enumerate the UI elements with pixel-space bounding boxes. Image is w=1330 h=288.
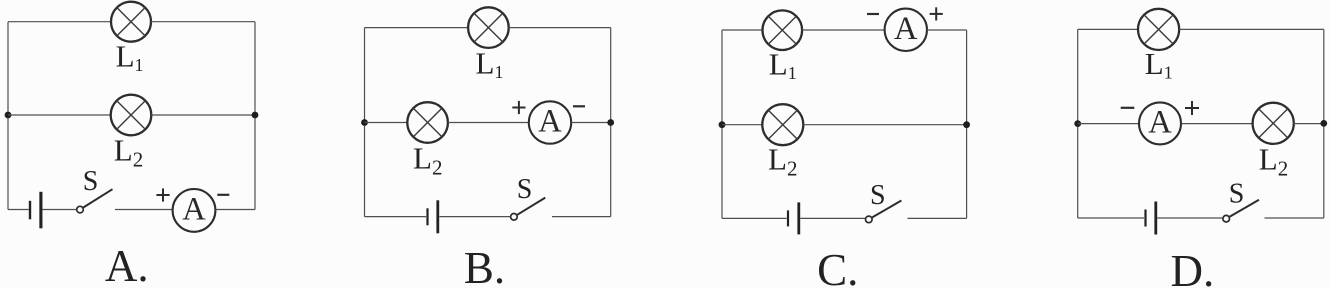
wire D top seg2 bbox=[1179, 28, 1324, 30]
wire D bottom seg1 bbox=[1078, 217, 1144, 219]
wire B bottom seg3 bbox=[552, 216, 611, 218]
switch (B) pivot bbox=[511, 214, 518, 221]
wire C bottom seg1 bbox=[722, 217, 787, 219]
svg-text:A: A bbox=[894, 11, 918, 47]
polarity - (B ammeter -) bbox=[573, 105, 585, 107]
wire B top-right segment bbox=[509, 27, 611, 29]
polarity + (C ammeter +) bbox=[930, 7, 943, 20]
wire A top-right segment bbox=[151, 21, 255, 23]
wire A bottom seg2 bbox=[42, 209, 76, 211]
svg-text:L1: L1 bbox=[1145, 46, 1173, 83]
polarity + (D ammeter +) bbox=[1185, 101, 1199, 115]
wire A right vertical bbox=[254, 22, 256, 210]
switch (C) pivot bbox=[866, 216, 873, 223]
svg-text:L1: L1 bbox=[476, 46, 504, 83]
junction D mid-right node bbox=[1320, 120, 1327, 127]
wire B top-left segment bbox=[365, 27, 469, 29]
wire C mid seg1 bbox=[722, 124, 762, 126]
switch (D) pivot bbox=[1223, 215, 1230, 222]
wire C bottom seg3 bbox=[908, 217, 967, 219]
svg-text:A: A bbox=[1148, 104, 1172, 140]
wire D bottom seg2 bbox=[1157, 217, 1223, 219]
svg-text:D.: D. bbox=[1171, 246, 1215, 288]
battery (D) bbox=[1144, 202, 1157, 235]
svg-text:S: S bbox=[517, 174, 533, 205]
polarity + (B ammeter +) bbox=[512, 101, 525, 114]
lamp L1 (A) bbox=[111, 2, 151, 42]
svg-text:L2: L2 bbox=[1259, 142, 1288, 181]
junction A mid-left node bbox=[5, 112, 12, 119]
switch (B) blade bbox=[517, 198, 545, 215]
lamp L2 (D) bbox=[1253, 103, 1294, 144]
wire D left vertical bbox=[1077, 29, 1079, 218]
junction A mid-right node bbox=[252, 112, 259, 119]
svg-text:S: S bbox=[1229, 179, 1245, 210]
svg-text:A: A bbox=[538, 104, 562, 140]
lamp L1 (B) bbox=[468, 7, 509, 48]
svg-text:L1: L1 bbox=[116, 39, 144, 76]
switch (A) pivot bbox=[77, 206, 84, 213]
ammeter A (option D) bbox=[1139, 102, 1181, 144]
wire C top seg2 bbox=[802, 29, 885, 31]
svg-text:A.: A. bbox=[105, 241, 149, 288]
wire B bottom seg2 bbox=[439, 216, 510, 218]
wire D right vertical bbox=[1323, 29, 1325, 218]
svg-text:A: A bbox=[182, 191, 206, 227]
wire A bottom seg1 bbox=[8, 209, 29, 211]
svg-text:C.: C. bbox=[817, 245, 858, 288]
junction D mid-left node bbox=[1074, 120, 1081, 127]
ammeter A (option A) bbox=[173, 189, 216, 232]
junction C mid-left node bbox=[719, 121, 726, 128]
lamp L2 (A) bbox=[111, 95, 152, 136]
wire B left vertical bbox=[364, 28, 366, 217]
switch (D) blade bbox=[1230, 200, 1259, 217]
svg-text:L2: L2 bbox=[768, 142, 797, 181]
wire C mid seg2 bbox=[803, 124, 966, 126]
wire D top seg1 bbox=[1078, 28, 1138, 30]
wire A bottom seg3 bbox=[115, 209, 173, 211]
battery (C) bbox=[787, 202, 800, 234]
lamp L2 (B) bbox=[407, 102, 448, 143]
wire D mid seg2 bbox=[1181, 123, 1252, 125]
lamp L1 (C) bbox=[763, 10, 803, 50]
polarity - (C ammeter -) bbox=[867, 13, 879, 15]
wire B mid seg2 bbox=[448, 122, 529, 124]
lamp L2 (C) bbox=[762, 104, 803, 145]
switch (A) blade bbox=[83, 189, 112, 207]
junction C mid-right node bbox=[963, 121, 970, 128]
wire C left vertical bbox=[721, 30, 723, 218]
wire B right vertical bbox=[610, 28, 612, 217]
polarity - (A ammeter -) bbox=[217, 194, 229, 196]
junction B mid-right node bbox=[607, 119, 614, 126]
wire C bottom seg2 bbox=[800, 217, 865, 219]
battery (A) bbox=[29, 192, 43, 229]
wire D bottom seg3 bbox=[1265, 217, 1324, 219]
wire A bottom seg4 bbox=[215, 209, 255, 211]
svg-text:L2: L2 bbox=[114, 132, 143, 171]
svg-text:S: S bbox=[870, 180, 886, 211]
polarity + (A ammeter +) bbox=[156, 188, 169, 201]
wire B bottom seg1 bbox=[365, 216, 427, 218]
svg-text:B.: B. bbox=[464, 243, 505, 288]
wire A mid-right segment bbox=[151, 114, 255, 116]
ammeter A (option C) bbox=[885, 9, 927, 51]
wire A left vertical bbox=[7, 22, 9, 210]
wire D mid seg3 bbox=[1294, 123, 1324, 125]
wire D mid seg1 bbox=[1078, 123, 1139, 125]
wire A mid-left segment bbox=[8, 114, 111, 116]
ammeter A (option B) bbox=[529, 101, 571, 143]
svg-text:L2: L2 bbox=[413, 141, 442, 180]
switch (C) blade bbox=[872, 201, 901, 218]
wire A top-left segment bbox=[8, 21, 111, 23]
lamp L1 (D) bbox=[1138, 9, 1179, 50]
wire B mid seg3 bbox=[571, 122, 611, 124]
svg-text:S: S bbox=[83, 166, 99, 197]
wire B mid seg1 bbox=[365, 122, 408, 124]
wire C top seg1 bbox=[722, 29, 763, 31]
polarity - (D ammeter -) bbox=[1121, 107, 1135, 109]
junction B mid-left node bbox=[361, 119, 368, 126]
battery (B) bbox=[426, 200, 439, 233]
wire C top seg3 bbox=[927, 29, 967, 31]
wire C right vertical bbox=[966, 30, 968, 218]
svg-text:L1: L1 bbox=[769, 47, 797, 84]
